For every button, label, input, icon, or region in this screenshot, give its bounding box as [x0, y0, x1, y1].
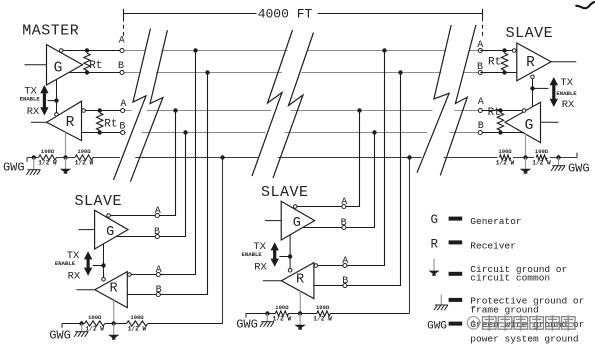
node A (master, pair 2) — [120, 99, 126, 112]
svg-text:B: B — [477, 62, 483, 73]
legend text protective ground — [470, 295, 584, 315]
right slave G output bubble — [522, 109, 526, 113]
svg-text:R: R — [296, 273, 304, 288]
wire slave1 R input B stub — [159, 73, 208, 295]
slave2 G output A wire — [297, 206, 345, 208]
svg-text:100Ω: 100Ω — [535, 148, 549, 155]
svg-text:B: B — [154, 227, 160, 238]
slave1 R input bubble — [128, 273, 132, 277]
master R input B wire — [82, 132, 123, 134]
cable break white gaps — [115, 25, 475, 182]
generator G (slave1) — [95, 210, 128, 249]
slave2 R input A wire — [318, 265, 346, 267]
master R output wire — [31, 121, 47, 123]
svg-text:A: A — [119, 36, 125, 47]
resistor Rt (right slave receiver side) — [488, 53, 508, 70]
slave1 G output B wire — [116, 236, 158, 238]
resistor 100 ohm (slave2 right) — [313, 304, 332, 322]
svg-text:100Ω: 100Ω — [498, 148, 512, 155]
dimension end tick left — [123, 9, 125, 18]
svg-text:B: B — [342, 276, 348, 287]
svg-text:R: R — [431, 238, 439, 252]
node A (right slave receiver) — [477, 40, 483, 53]
legend G symbol — [431, 213, 439, 227]
legend text circuit ground — [470, 264, 567, 284]
svg-text:R: R — [66, 115, 75, 131]
svg-text:circuit common: circuit common — [470, 273, 550, 284]
resistor 100 ohm (right slave left) — [496, 148, 515, 166]
svg-text:G: G — [431, 213, 439, 227]
slave1 G input wire — [78, 229, 94, 231]
svg-text:Rt: Rt — [488, 57, 501, 69]
slave2 TX/RX direction arrow — [271, 242, 279, 267]
svg-text:1/2 W: 1/2 W — [128, 325, 147, 332]
slave2 ENABLE label — [242, 251, 263, 258]
junction slave1 protective ground — [79, 321, 83, 325]
legend circuit ground symbol — [428, 259, 439, 276]
svg-text:GWG: GWG — [427, 321, 447, 333]
junction slave2 enable — [288, 254, 292, 258]
legend bar (G) — [449, 217, 463, 221]
slave2 TX label — [253, 241, 266, 253]
legend text Receiver — [470, 241, 516, 252]
right slave G output B wire — [480, 132, 524, 134]
wire slave2 G output B stub — [344, 133, 375, 228]
junction slave1 enable — [101, 263, 105, 267]
protective ground (slave2) — [260, 314, 274, 327]
dimension line 4000 FT (left segment) — [124, 13, 257, 15]
wire slave1 G output A stub — [158, 111, 176, 216]
svg-text:Rt: Rt — [89, 60, 102, 72]
slave2 R enable bubble — [288, 269, 292, 273]
slave2 enable wire — [279, 235, 290, 269]
junction master R Rt bottom — [98, 130, 102, 134]
right slave G input wire — [541, 121, 559, 123]
svg-text:B: B — [156, 285, 162, 296]
junction master R Rt top — [98, 108, 102, 112]
slave1 G output A wire — [110, 215, 158, 217]
dashed extension to node A (right) — [482, 18, 484, 38]
svg-text:B: B — [119, 122, 125, 133]
right slave ENABLE label — [556, 90, 577, 97]
svg-text:ENABLE: ENABLE — [20, 95, 41, 102]
svg-text:1/2 W: 1/2 W — [85, 325, 104, 332]
svg-text:R: R — [526, 55, 535, 71]
cable break symbol (right pair) — [417, 25, 476, 175]
node A (slave1 receiver) — [156, 265, 162, 277]
slave1 ENABLE label — [55, 260, 76, 267]
svg-text:B: B — [341, 218, 347, 229]
svg-text:ENABLE: ENABLE — [556, 90, 577, 97]
svg-text:B: B — [478, 121, 484, 132]
svg-text:A: A — [120, 99, 126, 110]
generator G (right slave) — [505, 102, 541, 142]
master R ground wire — [65, 132, 67, 157]
svg-text:4000 FT: 4000 FT — [258, 7, 313, 22]
junction right Rt bottom — [502, 70, 506, 74]
slave1 GWG terminal — [49, 324, 71, 343]
slave1 R input B wire — [127, 294, 158, 296]
wire slave2 ground line — [246, 313, 410, 315]
svg-text:100Ω: 100Ω — [130, 314, 144, 321]
junction slave2 protective ground — [265, 311, 269, 315]
dimension line 4000 FT (right segment) — [318, 13, 483, 15]
dashed extension to node A (left) — [123, 18, 125, 37]
slave2 R ground wire — [299, 291, 301, 314]
svg-text:100Ω: 100Ω — [88, 314, 102, 321]
junction slave2 circuit ground — [298, 311, 302, 315]
node B (slave2 receiver) — [342, 276, 348, 287]
master G input wire — [25, 64, 47, 66]
node B (slave1 receiver) — [156, 285, 162, 296]
legend bar (circuit ground) — [449, 272, 463, 276]
cable break symbol (middle pair) — [252, 30, 314, 178]
circuit ground (right slave) — [520, 158, 532, 174]
resistor Rt (master receiver side) — [97, 113, 118, 130]
wire slave2 ground riser — [409, 158, 411, 314]
slave2 R input B wire — [314, 285, 345, 287]
master TX label — [24, 86, 37, 98]
protective ground (right slave) — [551, 158, 565, 171]
svg-text:A: A — [156, 265, 162, 276]
right slave G ground wire — [525, 134, 527, 158]
junction right slave enable — [530, 86, 534, 90]
master G output B wire — [69, 72, 122, 74]
watermark logo and text — [467, 315, 575, 331]
right slave R output wire — [551, 61, 576, 63]
node A (master, pair 1) — [119, 36, 125, 53]
svg-text:R: R — [109, 282, 117, 297]
svg-text:100Ω: 100Ω — [275, 304, 289, 311]
junction slave1 RA on bus1A — [193, 48, 197, 52]
slave1 R output wire — [76, 289, 94, 291]
junction master enable — [54, 98, 58, 102]
master enable wire — [48, 79, 57, 113]
wire slave1 ground line — [62, 323, 223, 325]
wire slave2 R input B stub — [344, 73, 401, 286]
svg-text:RX: RX — [254, 262, 267, 274]
svg-text:SLAVE: SLAVE — [506, 25, 554, 42]
svg-text:A: A — [155, 206, 161, 217]
wire slave1 ground riser — [222, 158, 224, 324]
junction right Rt top — [502, 48, 506, 52]
svg-text:GWG: GWG — [568, 162, 590, 176]
junction slave1 ground on GWG bus — [220, 155, 224, 159]
master G output bubble — [59, 49, 63, 53]
receiver R (slave1) — [95, 272, 128, 308]
slave1 RX label — [68, 271, 81, 283]
junction slave2 GB on bus2B — [372, 130, 376, 134]
svg-text:ENABLE: ENABLE — [242, 251, 263, 258]
junction slave2 RB on bus1B — [398, 70, 402, 74]
svg-text:1/2 W: 1/2 W — [313, 315, 332, 322]
master R enable bubble — [55, 113, 59, 117]
wire slave1 R input A stub — [159, 51, 196, 275]
svg-text:100Ω: 100Ω — [41, 148, 55, 155]
right slave GWG terminal — [568, 153, 590, 176]
slave2 G output bubble — [293, 205, 297, 209]
slave1 R ground wire — [113, 300, 115, 323]
junction slave1 RB on bus1B — [205, 70, 209, 74]
svg-text:ENABLE: ENABLE — [55, 260, 76, 267]
svg-text:G: G — [106, 225, 114, 240]
slave1 R enable bubble — [102, 278, 106, 282]
protective ground (master) — [26, 158, 40, 175]
svg-text:100Ω: 100Ω — [77, 148, 91, 155]
slave2 R input bubble — [314, 264, 318, 268]
master ENABLE label — [20, 95, 41, 102]
right slave TX/RX direction arrow — [550, 77, 558, 107]
node A (slave2 generator) — [341, 197, 347, 208]
svg-text:100Ω: 100Ω — [316, 304, 330, 311]
junction right slave protective ground — [556, 155, 560, 159]
right slave R input A wire — [480, 50, 512, 52]
svg-text:A: A — [478, 97, 484, 108]
junction master protective ground — [32, 155, 36, 159]
master RX label — [27, 106, 40, 118]
svg-text:G: G — [293, 216, 301, 231]
svg-text:SLAVE: SLAVE — [261, 184, 309, 201]
wire slave1 G output B stub — [158, 133, 186, 237]
resistor 100 ohm (slave2 left) — [273, 304, 292, 322]
right slave R enable bubble — [531, 75, 535, 79]
right slave R input bubble — [512, 49, 516, 53]
svg-text:GWG: GWG — [3, 160, 25, 174]
legend text Generator — [470, 216, 521, 227]
svg-text:TX: TX — [560, 77, 573, 89]
master R input bubble — [82, 109, 86, 113]
svg-text:B: B — [118, 61, 124, 72]
right slave G output A wire — [480, 110, 522, 112]
svg-text:1/2 W: 1/2 W — [496, 159, 515, 166]
slave2 GWG terminal — [236, 314, 258, 332]
wire bus pair-1 line B — [122, 72, 480, 74]
master R input A wire — [86, 110, 123, 112]
receiver R (right slave) — [517, 43, 551, 81]
resistor Rt (master generator side) — [84, 53, 103, 72]
node B (master, pair 2) — [119, 122, 125, 135]
legend protective ground symbol — [434, 295, 448, 311]
junction master circuit ground — [63, 155, 67, 159]
label MASTER — [22, 23, 79, 40]
slave2 G input wire — [265, 220, 281, 222]
svg-text:G: G — [54, 61, 63, 77]
svg-text:A: A — [341, 197, 347, 208]
svg-text:1/2 W: 1/2 W — [38, 159, 57, 166]
slave1 TX/RX direction arrow — [84, 251, 92, 276]
protective ground (slave1) — [74, 324, 88, 337]
right slave TX label — [560, 77, 573, 89]
junction slave2 RA on bus1A — [382, 48, 386, 52]
node A (right slave generator) — [478, 97, 484, 113]
junction slave1 GA on bus2A — [173, 108, 177, 112]
node A (slave1 generator) — [155, 206, 161, 217]
cable break symbol (left pair) — [114, 29, 168, 182]
wire bus pair-2 line A — [122, 110, 480, 112]
circuit ground (master) — [60, 158, 72, 174]
legend R symbol — [431, 238, 439, 252]
master GWG terminal — [3, 158, 27, 175]
slave2 RX label — [254, 262, 267, 274]
receiver R (master U2) — [47, 101, 82, 140]
receiver R (slave2) — [281, 263, 314, 299]
svg-text:RX: RX — [27, 106, 40, 118]
legend GWG symbol — [427, 321, 447, 333]
node B (slave2 generator) — [341, 218, 347, 230]
svg-text:Receiver: Receiver — [470, 241, 516, 252]
svg-text:RX: RX — [68, 271, 81, 283]
circuit ground (slave2) — [294, 314, 306, 330]
junction slave1 circuit ground — [112, 321, 116, 325]
junction right slave circuit ground — [523, 155, 527, 159]
node B (slave1 generator) — [154, 227, 160, 239]
junction master Rt bottom — [85, 70, 89, 74]
svg-text:SLAVE: SLAVE — [74, 193, 122, 210]
node A (slave2 receiver) — [342, 256, 348, 268]
generator G (master U1) — [47, 45, 83, 85]
svg-text:G: G — [525, 118, 534, 134]
wire slave2 R input A stub — [344, 51, 385, 266]
right slave enable wire — [533, 79, 549, 107]
right slave RX label — [562, 99, 575, 111]
wire bus pair-1 line A — [122, 50, 480, 52]
wire bus pair-2 line B — [122, 132, 480, 134]
slave1 R input A wire — [131, 274, 159, 276]
dimension end tick right — [482, 9, 484, 18]
svg-text:MASTER: MASTER — [22, 23, 79, 40]
svg-text:1/2 W: 1/2 W — [273, 315, 292, 322]
svg-text:power system ground: power system ground — [470, 334, 578, 345]
label SLAVE (slave1) — [74, 193, 122, 210]
label SLAVE (right) — [506, 25, 554, 42]
svg-text:RX: RX — [562, 99, 575, 111]
svg-text:A: A — [477, 40, 483, 51]
junction slave1 GB on bus2B — [183, 130, 187, 134]
slave1 TX label — [67, 250, 80, 262]
legend bar (R) — [449, 240, 463, 244]
junction right G Rt top — [498, 108, 502, 112]
master TX/RX direction arrow — [40, 85, 48, 116]
slave2 R output wire — [263, 280, 281, 282]
resistor Rt (right slave generator side) — [488, 107, 504, 130]
node B (right slave generator) — [478, 121, 484, 135]
label SLAVE (slave2) — [261, 184, 309, 201]
slave1 G output bubble — [107, 214, 111, 218]
legend bar (protective ground) — [449, 298, 463, 302]
wire slave2 G output A stub — [344, 111, 360, 207]
svg-text:1/2 W: 1/2 W — [532, 159, 551, 166]
resistor 100 ohm (master left) — [38, 148, 57, 166]
junction right G Rt bottom — [498, 130, 502, 134]
generator G (slave2) — [281, 201, 314, 240]
resistor 100 ohm (master right) — [75, 148, 94, 166]
svg-text:Rt: Rt — [488, 107, 501, 119]
legend bar (GWG) — [449, 322, 463, 326]
resistor 100 ohm (slave1 right) — [127, 314, 148, 332]
wire ground bus GWG — [27, 157, 577, 159]
svg-text:A: A — [342, 256, 348, 267]
node B (right slave receiver) — [477, 62, 483, 75]
slave1 enable wire — [93, 244, 104, 278]
svg-text:frame ground: frame ground — [470, 304, 538, 315]
svg-text:GWG: GWG — [236, 317, 258, 331]
legend text GWG — [470, 319, 584, 344]
junction master Rt top — [85, 48, 89, 52]
master G output A wire — [63, 50, 122, 52]
svg-text:1/2 W: 1/2 W — [75, 159, 94, 166]
dimension label 4000 FT — [258, 7, 313, 22]
corner scribble mark — [576, 2, 595, 8]
junction slave2 ground on GWG bus — [407, 155, 411, 159]
junction slave2 GA on bus2A — [357, 108, 361, 112]
svg-text:Generator: Generator — [470, 216, 521, 227]
resistor 100 ohm (slave1 left) — [85, 314, 105, 332]
svg-text:GWG: GWG — [49, 329, 71, 343]
right slave R input B wire — [480, 72, 517, 74]
node B (master, pair 1) — [118, 61, 124, 75]
svg-text:Rt: Rt — [104, 118, 117, 130]
resistor 100 ohm (right slave right) — [532, 148, 551, 166]
slave2 G output B wire — [303, 227, 345, 229]
circuit ground (slave1) — [108, 324, 120, 340]
